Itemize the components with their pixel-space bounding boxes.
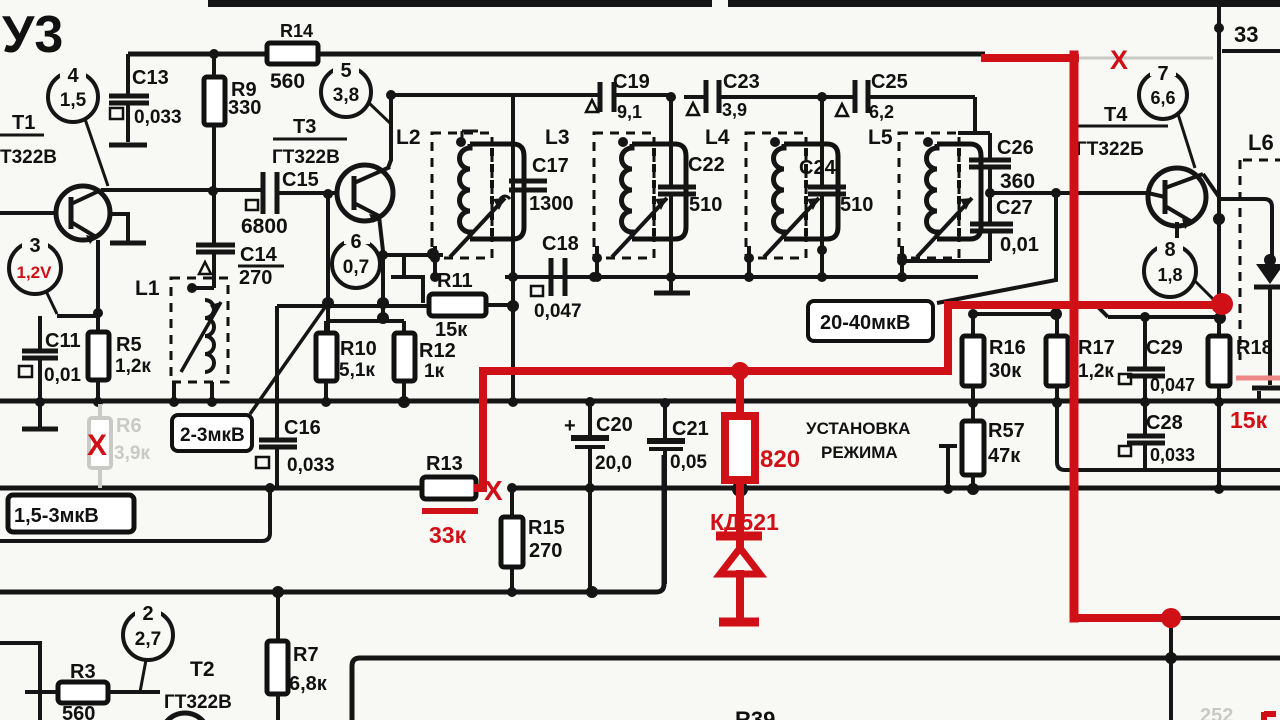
label 33 pin box xyxy=(1222,22,1280,51)
capacitor C18 xyxy=(513,233,594,322)
svg-text:6,2: 6,2 xyxy=(869,102,894,122)
measure circle 6 (0,7) xyxy=(332,230,380,288)
ground on IF bus xyxy=(654,281,690,293)
svg-text:L1: L1 xyxy=(135,277,160,300)
label T3 xyxy=(272,116,347,168)
wire emitter row y=255 xyxy=(383,253,443,257)
measure circle 8 (1,8) xyxy=(1144,222,1219,305)
wire bus A y=403 (chassis) xyxy=(0,399,1280,404)
svg-text:2: 2 xyxy=(142,603,153,625)
top border bar xyxy=(208,0,712,7)
svg-text:C26: C26 xyxy=(997,137,1034,159)
svg-text:C24: C24 xyxy=(799,157,837,179)
red resistor 820 xyxy=(725,371,800,480)
wire T1 collector to C15 xyxy=(101,188,265,192)
svg-text:L2: L2 xyxy=(396,126,421,149)
wire T3 emitter chain xyxy=(379,216,383,321)
svg-text:Т1: Т1 xyxy=(12,112,35,134)
svg-text:C21: C21 xyxy=(672,418,709,440)
capacitor C22 xyxy=(658,97,725,277)
measure box 1,5-3мкВ xyxy=(8,495,134,532)
svg-text:C25: C25 xyxy=(871,71,908,93)
inductor L2 (IF can) xyxy=(396,126,524,282)
svg-text:C20: C20 xyxy=(596,414,633,436)
svg-text:0,047: 0,047 xyxy=(534,301,582,322)
o mark C29 xyxy=(1119,374,1131,384)
svg-text:R11: R11 xyxy=(437,270,473,292)
svg-text:R39: R39 xyxy=(735,707,775,720)
wire base column T3 down xyxy=(326,194,330,333)
svg-text:0,047: 0,047 xyxy=(1150,375,1195,395)
svg-text:252: 252 xyxy=(1200,705,1233,720)
transistor T3 xyxy=(337,165,393,223)
svg-text:C14: C14 xyxy=(240,244,278,266)
svg-text:C28: C28 xyxy=(1146,412,1183,434)
varicap into L6 xyxy=(1252,254,1280,401)
svg-text:C23: C23 xyxy=(723,71,760,93)
measure circle 4 (1,5) xyxy=(48,64,108,186)
svg-text:6: 6 xyxy=(350,231,361,253)
svg-text:Т2: Т2 xyxy=(190,658,215,681)
wire T4 base xyxy=(990,193,1165,197)
capacitor C26 xyxy=(958,97,1035,193)
svg-text:R3: R3 xyxy=(70,661,96,683)
svg-text:R17: R17 xyxy=(1078,337,1115,359)
wire C20 column down xyxy=(588,488,592,592)
node bus B / diode column xyxy=(732,481,748,497)
wire IF ground bus y=277 xyxy=(505,275,978,279)
wire row y=303 C16 to R11 xyxy=(277,304,429,308)
resistor R7 xyxy=(267,592,328,720)
svg-text:0,7: 0,7 xyxy=(343,257,369,278)
capacitor C20 xyxy=(564,401,633,488)
capacitor C27 xyxy=(900,193,1039,261)
svg-text:33: 33 xyxy=(1234,22,1258,47)
svg-text:330: 330 xyxy=(228,97,261,119)
red diode КД521 xyxy=(710,480,779,622)
measure circle 2 (2,7) xyxy=(123,602,173,692)
svg-text:РЕЖИМА: РЕЖИМА xyxy=(821,443,898,462)
svg-text:C16: C16 xyxy=(284,417,321,439)
measure circle 5 (3,8) xyxy=(321,59,392,125)
svg-text:560: 560 xyxy=(62,703,95,720)
svg-text:L3: L3 xyxy=(545,126,570,149)
red tick bottom right corner xyxy=(1264,712,1276,720)
svg-text:47к: 47к xyxy=(988,445,1021,467)
svg-text:560: 560 xyxy=(270,70,305,93)
svg-text:1,2V: 1,2V xyxy=(17,263,53,282)
wire L2 top tap xyxy=(462,131,478,142)
svg-text:C27: C27 xyxy=(996,197,1033,219)
red faded strike right xyxy=(1236,376,1280,381)
label УСТАНОВКА РЕЖИМА xyxy=(806,419,910,462)
label T4 xyxy=(1075,104,1168,160)
measure box 2-3мкВ xyxy=(172,303,328,451)
svg-text:C15: C15 xyxy=(282,169,319,191)
wire bus B y=488 xyxy=(0,486,1280,491)
transistor T2 (top arc at edge) xyxy=(161,713,209,720)
capacitor C29 xyxy=(1127,317,1195,401)
resistor R10 xyxy=(316,321,377,401)
resistor R5 xyxy=(88,316,151,401)
inductor L3 (IF can) xyxy=(545,126,686,282)
svg-text:C11: C11 xyxy=(45,330,81,352)
capacitor C11 xyxy=(19,316,98,429)
wire emitter row y=317 xyxy=(1096,305,1219,317)
svg-text:33к: 33к xyxy=(429,522,467,548)
label T2 xyxy=(164,658,232,713)
ground at T1 emitter xyxy=(110,214,146,243)
svg-text:L6: L6 xyxy=(1248,130,1274,155)
trimmer tap stub xyxy=(939,446,957,488)
resistor R57 xyxy=(962,403,1025,488)
svg-text:R10: R10 xyxy=(340,338,377,360)
wire column x=1056 down xyxy=(937,193,1056,303)
svg-text:R18: R18 xyxy=(1236,337,1273,359)
svg-text:5,1к: 5,1к xyxy=(339,360,375,381)
svg-text:20,0: 20,0 xyxy=(595,453,632,474)
transistor T1 xyxy=(56,186,110,244)
capacitor C17 xyxy=(500,95,574,215)
svg-text:X: X xyxy=(1110,45,1128,75)
capacitor C25 xyxy=(836,71,908,122)
svg-text:1к: 1к xyxy=(424,361,445,382)
node R11 right junction xyxy=(507,300,519,312)
wire R16/R17 top row xyxy=(973,312,1057,316)
wire T4 collector to column xyxy=(1203,174,1219,197)
red wire top segment xyxy=(985,54,1075,62)
wire T3 collector up to y95 xyxy=(388,95,391,168)
svg-text:1,2к: 1,2к xyxy=(115,356,151,377)
svg-text:2-3мкВ: 2-3мкВ xyxy=(180,425,245,446)
svg-text:15к: 15к xyxy=(435,319,468,341)
wire bottom left block edge xyxy=(0,643,40,720)
svg-text:3,9к: 3,9к xyxy=(114,443,150,464)
svg-text:R6: R6 xyxy=(116,415,142,437)
inductor L6 (dashed, edge) xyxy=(1240,130,1280,360)
resistor R18 xyxy=(1208,305,1273,489)
svg-text:C29: C29 xyxy=(1146,337,1183,359)
svg-text:L5: L5 xyxy=(868,126,893,149)
wire row y=321 R10-R12 tops xyxy=(326,319,404,323)
svg-text:1,5: 1,5 xyxy=(60,90,87,111)
node base junction T3 xyxy=(323,189,333,199)
svg-text:0,033: 0,033 xyxy=(134,107,182,128)
svg-text:КД521: КД521 xyxy=(710,509,779,535)
capacitor C14 xyxy=(196,191,284,289)
o mark C28 xyxy=(1119,446,1131,456)
red node emitter junction xyxy=(1211,293,1233,315)
svg-text:R16: R16 xyxy=(989,337,1026,359)
svg-text:R7: R7 xyxy=(293,644,319,666)
red node 820 top xyxy=(731,362,749,380)
svg-text:820: 820 xyxy=(760,446,800,473)
grey line top right xyxy=(1077,57,1213,60)
red label 33к with strike xyxy=(422,511,478,548)
svg-text:C22: C22 xyxy=(688,154,725,176)
resistor R3 xyxy=(25,661,160,720)
svg-text:1,2к: 1,2к xyxy=(1078,361,1114,382)
red wire R13 to row370 xyxy=(478,371,483,488)
svg-text:4: 4 xyxy=(67,65,79,87)
svg-text:ГТ322В: ГТ322В xyxy=(164,692,232,713)
capacitor C15 xyxy=(241,169,337,238)
transistor T4 xyxy=(1148,168,1206,229)
svg-text:15к: 15к xyxy=(1230,407,1268,433)
svg-text:0,01: 0,01 xyxy=(1000,234,1039,256)
capacitor C19 xyxy=(586,71,650,122)
svg-text:7: 7 xyxy=(1157,63,1168,85)
capacitor C23 xyxy=(687,71,760,120)
red wire long vertical xyxy=(1070,55,1079,618)
svg-text:270: 270 xyxy=(239,267,272,289)
svg-text:R13: R13 xyxy=(426,453,463,475)
svg-text:0,01: 0,01 xyxy=(44,365,81,386)
svg-text:0,05: 0,05 xyxy=(670,452,707,473)
capacitor C16 xyxy=(256,306,335,488)
capacitor C24 xyxy=(799,97,873,277)
box right edge + row to C28 xyxy=(1057,403,1280,470)
svg-text:R5: R5 xyxy=(116,334,142,356)
wire C26/C27 junction to T4 base xyxy=(985,188,995,198)
svg-text:270: 270 xyxy=(529,540,562,562)
capacitor C28 xyxy=(1127,403,1195,470)
svg-text:R12: R12 xyxy=(419,340,456,362)
svg-text:3,8: 3,8 xyxy=(333,85,359,106)
svg-text:20-40мкВ: 20-40мкВ xyxy=(820,312,910,334)
wire bottom box edge y=657 xyxy=(352,658,1280,720)
svg-text:6,8к: 6,8к xyxy=(289,673,328,695)
resistor R15 xyxy=(501,488,565,592)
resistor R11 xyxy=(429,270,513,341)
svg-text:3,9: 3,9 xyxy=(722,100,747,120)
label T1 xyxy=(0,112,57,168)
svg-text:R14: R14 xyxy=(280,21,313,41)
svg-text:0,033: 0,033 xyxy=(287,455,335,476)
svg-text:3: 3 xyxy=(29,235,40,257)
svg-text:Т3: Т3 xyxy=(293,116,316,138)
svg-text:R57: R57 xyxy=(988,420,1025,442)
wire right bottom row y=618 xyxy=(1171,616,1280,620)
svg-text:1,5-3мкВ: 1,5-3мкВ xyxy=(14,505,99,527)
svg-text:X: X xyxy=(484,475,503,506)
svg-text:Т4: Т4 xyxy=(1104,104,1128,126)
resistor R16 xyxy=(962,314,1026,401)
svg-text:L4: L4 xyxy=(705,126,730,149)
node bus junction R9 xyxy=(209,49,219,59)
svg-text:8: 8 xyxy=(1164,239,1175,261)
red node bottom junction xyxy=(1161,608,1181,628)
node bottom bus junction xyxy=(272,586,284,598)
inductor L5 (IF can) xyxy=(868,126,981,282)
measure box 20-40мкВ xyxy=(808,301,933,341)
resistor R6 (ghost, disconnected) xyxy=(89,404,150,488)
resistor R17 xyxy=(1046,314,1115,401)
svg-text:5: 5 xyxy=(340,60,351,82)
svg-text:360: 360 xyxy=(1000,170,1035,193)
svg-text:ГТ322В: ГТ322В xyxy=(272,147,340,168)
svg-text:+: + xyxy=(564,415,576,437)
wire column x=513 xyxy=(511,95,515,401)
resistor R9 xyxy=(204,54,261,191)
wire emitter elbow to R11 xyxy=(391,255,423,303)
resistor R14 xyxy=(267,21,318,93)
svg-text:9,1: 9,1 xyxy=(617,102,642,122)
wire bottom bus y=592 xyxy=(0,455,664,592)
inductor L1 (dashed can) xyxy=(135,277,228,401)
svg-text:C13: C13 xyxy=(132,67,169,89)
wire right column x=1219 xyxy=(1217,7,1221,330)
svg-text:1300: 1300 xyxy=(529,193,574,215)
svg-text:1,8: 1,8 xyxy=(1157,265,1182,285)
svg-text:6,6: 6,6 xyxy=(1150,88,1175,108)
svg-text:У3: У3 xyxy=(2,6,63,64)
wire lower-right verticals xyxy=(1169,627,1173,720)
node T1 collector junction xyxy=(208,186,218,196)
svg-text:Т322В: Т322В xyxy=(0,147,57,168)
wire T1 base xyxy=(0,211,56,215)
wire top bus y=54 xyxy=(128,52,985,57)
svg-text:УСТАНОВКА: УСТАНОВКА xyxy=(806,419,910,438)
svg-text:30к: 30к xyxy=(989,360,1022,382)
svg-text:C18: C18 xyxy=(542,233,579,255)
svg-text:C17: C17 xyxy=(532,155,569,177)
svg-text:6800: 6800 xyxy=(241,215,288,238)
measure circle 7 (6,6) xyxy=(1139,62,1195,168)
capacitor C21 xyxy=(647,403,709,584)
svg-text:2,7: 2,7 xyxy=(135,629,161,650)
wire T1 emitter down xyxy=(96,240,100,316)
svg-text:0,033: 0,033 xyxy=(1150,445,1195,465)
measure circle 3 (1,2V) xyxy=(9,234,61,314)
svg-text:510: 510 xyxy=(689,194,722,216)
svg-text:510: 510 xyxy=(840,194,873,216)
capacitor C13 xyxy=(109,54,182,145)
red wire row y=370 xyxy=(483,305,1222,371)
red wire bottom elbow to dot xyxy=(1075,614,1171,622)
svg-text:C19: C19 xyxy=(613,71,650,93)
wire collector row to L6 xyxy=(1219,199,1272,258)
svg-text:X: X xyxy=(87,429,107,462)
resistor R12 xyxy=(394,321,456,401)
svg-text:R15: R15 xyxy=(528,517,565,539)
svg-text:ГТ322Б: ГТ322Б xyxy=(1076,139,1144,160)
wire loop below bus B xyxy=(0,488,270,541)
wire y=95 top coupling line xyxy=(390,95,975,97)
inductor L4 (IF can) xyxy=(705,126,838,282)
resistor R13 xyxy=(422,453,476,499)
